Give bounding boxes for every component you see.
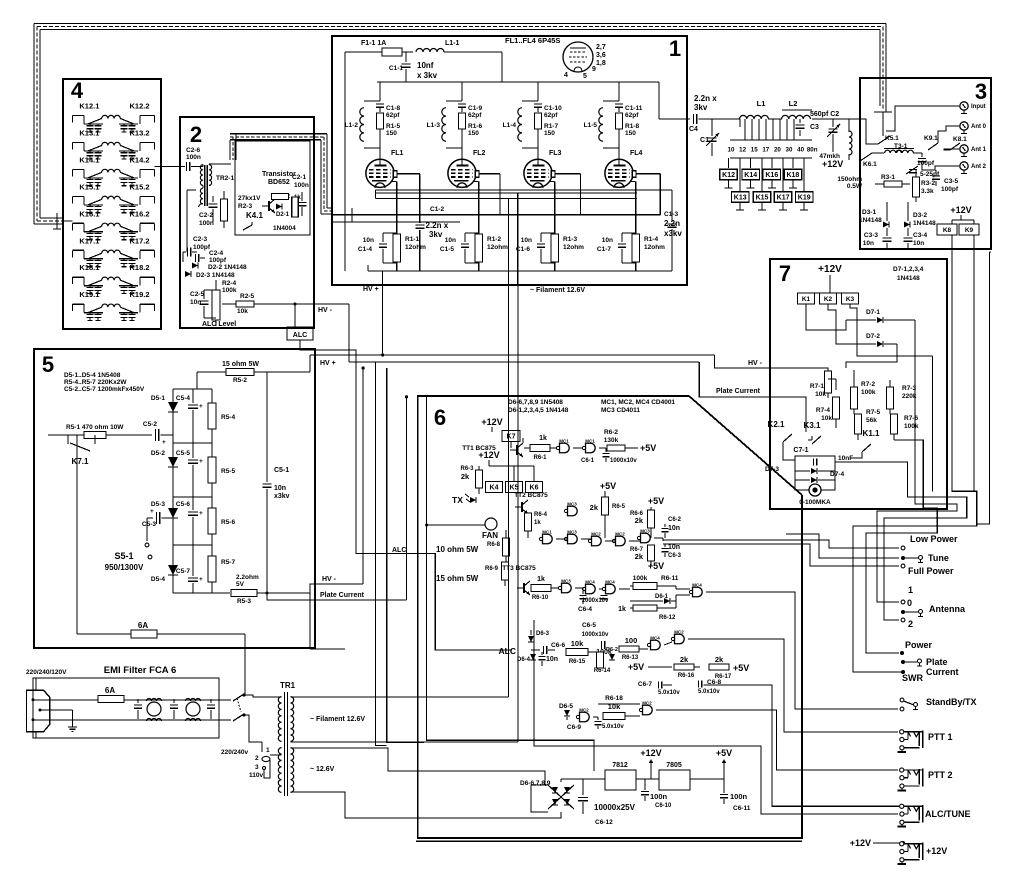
svg-text:TR2-1: TR2-1	[216, 175, 234, 182]
svg-text:130k: 130k	[604, 437, 619, 444]
resistor 1k	[292, 195, 302, 217]
svg-text:K14.2: K14.2	[129, 155, 149, 164]
svg-text:D3-2: D3-2	[913, 212, 927, 219]
capacitor C6-3 10n	[662, 544, 682, 559]
svg-text:62pf: 62pf	[625, 112, 639, 119]
wire K1-K3 tops	[806, 292, 850, 294]
cathode wire FL1	[391, 182, 397, 235]
jack ALC/TUNE	[898, 804, 971, 826]
resistor R6-3 2k	[460, 466, 482, 494]
svg-text:Ant 0: Ant 0	[971, 124, 987, 130]
svg-text:FL4: FL4	[630, 150, 643, 157]
wire long run to block7 plate current	[349, 361, 699, 363]
resistor R2-3 27kx1W	[221, 191, 262, 228]
svg-text:D7-1: D7-1	[866, 309, 880, 316]
cathode wire FL4	[630, 182, 636, 235]
svg-text:K16.1: K16.1	[79, 209, 99, 218]
svg-text:+5V: +5V	[733, 663, 749, 673]
capacitor C1-1 10nf x3kv	[389, 52, 438, 82]
svg-text:C5-4: C5-4	[176, 395, 190, 402]
svg-text:+: +	[199, 458, 203, 465]
svg-text:R6-2: R6-2	[604, 429, 618, 436]
svg-text:R7-5: R7-5	[866, 409, 880, 416]
svg-text:K15.2: K15.2	[129, 182, 149, 191]
svg-text:10000x25V: 10000x25V	[594, 803, 636, 812]
svg-text:15 ohm 5W: 15 ohm 5W	[222, 361, 259, 368]
svg-text:ALC: ALC	[293, 332, 307, 339]
capacitor C6-4	[578, 588, 609, 613]
svg-text:150: 150	[386, 130, 397, 137]
capacitor C2-2	[199, 196, 218, 227]
svg-text:MC2: MC2	[674, 630, 684, 635]
svg-text:Plate Current: Plate Current	[716, 388, 761, 395]
cathode network C1-6 R1-3	[516, 233, 584, 271]
svg-text:D6-6,7,8,9 1N5408: D6-6,7,8,9 1N5408	[508, 399, 563, 406]
svg-text:HV +: HV +	[363, 286, 379, 293]
svg-text:C5-1: C5-1	[274, 467, 289, 474]
gate MC4c	[602, 580, 630, 594]
diode D2-1	[276, 204, 290, 219]
svg-text:100pf: 100pf	[941, 186, 959, 193]
connector Input	[960, 102, 986, 114]
svg-text:R1-8: R1-8	[625, 123, 639, 130]
svg-text:FAN: FAN	[482, 531, 498, 540]
wire left rail block1	[344, 52, 346, 271]
svg-text:Low Power: Low Power	[910, 534, 958, 544]
connector Ant 0	[960, 122, 987, 134]
svg-text:x3kv: x3kv	[274, 493, 290, 500]
svg-text:10n: 10n	[190, 299, 201, 306]
wire plate current riser from block5	[406, 397, 408, 600]
svg-text:2.2ohm: 2.2ohm	[236, 574, 259, 581]
svg-text:3: 3	[975, 79, 987, 104]
svg-text:FL2: FL2	[473, 150, 486, 157]
module box 5 (HV power supply)	[34, 349, 315, 648]
svg-text:3kv: 3kv	[429, 230, 443, 239]
svg-text:R2-5: R2-5	[240, 293, 254, 300]
svg-text:R1-1: R1-1	[405, 236, 419, 243]
gate row MC3c	[637, 529, 650, 543]
svg-text:K9.1: K9.1	[924, 135, 938, 142]
svg-text:5.0x10v: 5.0x10v	[698, 689, 720, 695]
svg-text:K8: K8	[943, 227, 952, 234]
svg-text:D5-4: D5-4	[151, 576, 165, 583]
wire Plate Current entry	[770, 397, 806, 432]
svg-text:K6.1: K6.1	[863, 161, 877, 168]
svg-text:1: 1	[908, 585, 913, 595]
svg-text:R6-11: R6-11	[661, 575, 679, 582]
svg-text:D2-2 1N4148: D2-2 1N4148	[208, 264, 247, 271]
fan symbol	[482, 518, 498, 540]
svg-text:5V: 5V	[236, 581, 245, 588]
contact Ant2	[901, 618, 905, 622]
svg-text:C2-1: C2-1	[292, 174, 306, 181]
svg-text:K4: K4	[490, 485, 499, 492]
wire grid bus top	[377, 81, 659, 83]
PA stage FL4 anode network	[584, 82, 643, 160]
capacitor C6-12 10000x25V	[578, 779, 636, 826]
svg-text:D7-3: D7-3	[765, 466, 779, 473]
svg-text:5-25pf: 5-25pf	[920, 171, 940, 178]
svg-text:+5V: +5V	[716, 748, 732, 758]
relay coil K4	[486, 482, 503, 493]
svg-text:R5-2: R5-2	[233, 377, 247, 384]
svg-text:62pf: 62pf	[468, 112, 482, 119]
wire mains to TR1 primary	[244, 695, 282, 697]
svg-text:MC3: MC3	[567, 530, 577, 535]
svg-text:R1-7: R1-7	[544, 123, 558, 130]
svg-text:+12V: +12V	[478, 450, 499, 460]
svg-text:10k: 10k	[571, 639, 584, 648]
relay K15	[753, 192, 771, 203]
svg-text:R7-2: R7-2	[861, 381, 875, 388]
transformer TR1	[278, 681, 295, 796]
capacitor C6-7	[638, 681, 680, 696]
svg-text:560pf C2: 560pf C2	[810, 111, 839, 118]
capacitor C6-1	[581, 448, 637, 464]
diode D3-2 1N4148	[904, 202, 936, 228]
svg-text:150ohm: 150ohm	[837, 176, 862, 183]
EMI caps	[134, 699, 215, 719]
wire to Ant1	[944, 149, 959, 150]
svg-text:D6-4: D6-4	[517, 657, 531, 663]
svg-text:L1-5: L1-5	[584, 122, 598, 129]
svg-text:D7-2: D7-2	[866, 333, 880, 340]
svg-text:R6-15: R6-15	[569, 659, 586, 665]
svg-text:SWR: SWR	[902, 673, 923, 683]
svg-text:D5-1: D5-1	[151, 395, 165, 402]
svg-text:2.2n x: 2.2n x	[426, 221, 449, 230]
svg-text:100n: 100n	[294, 182, 309, 189]
wire K2 down	[828, 304, 846, 344]
capacitor C5-4	[176, 389, 203, 443]
gate MC1a	[556, 439, 583, 453]
transformer T3-1	[872, 143, 922, 153]
svg-text:9: 9	[592, 66, 596, 73]
wire grid bias bus	[332, 214, 660, 216]
svg-text:40: 40	[797, 147, 804, 154]
svg-text:R5-5: R5-5	[221, 468, 235, 475]
wire U-turn fourth	[866, 440, 937, 653]
svg-text:R1-2: R1-2	[487, 236, 501, 243]
tube FL4	[605, 159, 633, 187]
resistor R2-5 10k	[222, 293, 254, 315]
diode D6-1	[630, 594, 676, 604]
grid pin bracket FL3	[551, 171, 580, 215]
relay row stubs	[725, 158, 809, 210]
svg-text:1000x10v: 1000x10v	[582, 632, 609, 638]
diode D2-2	[192, 263, 247, 272]
wire HV- exit block5	[310, 584, 363, 593]
svg-text:5.0x10v: 5.0x10v	[602, 724, 624, 730]
svg-text:TT2 BC875: TT2 BC875	[514, 492, 548, 499]
capacitor C5-3	[142, 508, 173, 528]
svg-text:10nF: 10nF	[838, 455, 853, 462]
contact Full Power	[901, 564, 905, 568]
svg-text:100k: 100k	[904, 423, 919, 430]
wire K3 down	[850, 304, 933, 356]
svg-text:C7-1: C7-1	[793, 447, 808, 454]
capacitor C6-5	[582, 622, 609, 649]
diode D5-1	[151, 389, 178, 443]
svg-text:MC3: MC3	[640, 529, 650, 534]
svg-text:~ Filament 12.6V: ~ Filament 12.6V	[530, 287, 585, 294]
resistor R2-4 100k	[212, 280, 237, 326]
svg-text:3.3k: 3.3k	[921, 188, 934, 195]
diode D7-4	[795, 471, 844, 483]
svg-text:K17.1: K17.1	[79, 236, 99, 245]
svg-text:+12V: +12V	[850, 838, 871, 848]
svg-text:K18.2: K18.2	[129, 263, 149, 272]
resistor R5-2 15 ohm 5W	[197, 361, 310, 384]
svg-text:D6-1,2,3,4,5 1N4148: D6-1,2,3,4,5 1N4148	[508, 407, 569, 414]
svg-text:6A: 6A	[138, 621, 148, 630]
svg-text:K1.1: K1.1	[863, 429, 880, 438]
resistor R6-5 2k	[590, 481, 626, 538]
relay K18	[784, 169, 802, 180]
relay coil K9	[959, 224, 979, 235]
svg-text:MC4: MC4	[605, 580, 615, 585]
resistor R5-7	[208, 545, 235, 593]
svg-text:110v: 110v	[249, 772, 263, 779]
svg-text:MC1: MC1	[542, 530, 552, 535]
svg-text:+5V: +5V	[628, 662, 644, 672]
svg-text:62pf: 62pf	[386, 112, 400, 119]
wire fan feed column	[427, 396, 594, 771]
svg-text:K13.1: K13.1	[79, 128, 99, 137]
svg-text:10n: 10n	[913, 240, 924, 247]
svg-text:17: 17	[762, 147, 769, 154]
wire block4 K14 row to block2 C2-6	[155, 166, 181, 168]
svg-text:D5-3: D5-3	[151, 501, 165, 508]
resistor R7-3 220k	[887, 380, 917, 414]
trimmer 5-25pf	[906, 166, 940, 178]
resistor R7-5 56k	[854, 409, 880, 440]
svg-text:MC4: MC4	[692, 583, 702, 588]
relay K13	[731, 192, 749, 203]
resistor R5-3 2.2ohm 5W	[173, 574, 310, 605]
svg-text:PTT 1: PTT 1	[928, 732, 953, 742]
svg-text:TT3 BC875: TT3 BC875	[502, 565, 536, 572]
svg-text:BD652: BD652	[268, 179, 290, 186]
tube FL2	[448, 159, 476, 187]
svg-text:220/240/120V: 220/240/120V	[26, 669, 67, 676]
wire TR1 12.6V winding out	[291, 748, 549, 785]
svg-text:x 3kv: x 3kv	[417, 71, 438, 80]
diode D6-3	[528, 630, 550, 642]
svg-text:150: 150	[625, 130, 636, 137]
cathode wire FL2	[473, 182, 479, 235]
svg-text:R5-6: R5-6	[221, 519, 235, 526]
svg-text:+5V: +5V	[648, 496, 664, 506]
relay contact K1.1	[862, 429, 880, 452]
svg-text:K12.2: K12.2	[129, 102, 149, 111]
wire U-turn outer	[853, 235, 977, 672]
svg-text:6A: 6A	[105, 686, 115, 695]
svg-text:10k: 10k	[821, 415, 832, 422]
svg-text:100n: 100n	[650, 792, 668, 801]
svg-text:C2-4: C2-4	[209, 250, 223, 257]
svg-text:MC4: MC4	[585, 580, 595, 585]
svg-text:5.0x10v: 5.0x10v	[658, 690, 680, 696]
contact Ant1	[901, 600, 905, 604]
wire HV- riser from block5	[362, 368, 364, 584]
module box 3 (antenna relays)	[860, 78, 991, 249]
svg-text:10: 10	[728, 147, 735, 154]
svg-text:56k: 56k	[866, 417, 877, 424]
resistor R7-6 100k	[890, 414, 919, 440]
resistor R5-4	[208, 389, 235, 443]
wire trimmer to Ant2	[922, 166, 959, 170]
svg-text:C1-5: C1-5	[440, 246, 454, 253]
module box 2 (ALC detector)	[180, 117, 314, 328]
svg-text:100n: 100n	[199, 220, 214, 227]
svg-text:C5-2: C5-2	[143, 421, 157, 428]
transistor TT3 BC875	[502, 565, 536, 595]
svg-text:C1-10: C1-10	[544, 105, 562, 112]
svg-text:C5-2..C5-7 1200mkFx450V: C5-2..C5-7 1200mkFx450V	[64, 386, 145, 393]
diode D2-3	[185, 271, 235, 279]
svg-text:C5-3: C5-3	[142, 521, 156, 528]
svg-text:K19.2: K19.2	[129, 290, 149, 299]
svg-text:C6-10: C6-10	[655, 803, 672, 809]
resistor R6-16 2k	[628, 655, 700, 679]
wire alc-tune feed 2	[534, 620, 898, 814]
svg-text:10n: 10n	[602, 237, 613, 244]
capacitor C5-7	[176, 545, 203, 593]
svg-text:1N4004: 1N4004	[273, 225, 296, 232]
svg-text:C6-12: C6-12	[595, 819, 613, 826]
svg-text:C6-11: C6-11	[733, 805, 751, 812]
fuse 6A block5	[77, 621, 245, 638]
shield termination tick left	[56, 213, 58, 229]
contact Power	[900, 651, 904, 655]
svg-text:R1-5: R1-5	[386, 123, 400, 130]
svg-text:2k: 2k	[635, 552, 644, 561]
wire HV+ exit block5	[309, 355, 311, 372]
svg-text:100k: 100k	[861, 389, 876, 396]
svg-text:ALC: ALC	[392, 547, 406, 554]
svg-text:7: 7	[779, 261, 791, 286]
svg-text:D7-1,2,3,4: D7-1,2,3,4	[893, 266, 924, 273]
wire K3 drop to nest	[932, 356, 934, 491]
svg-text:10n: 10n	[445, 237, 456, 244]
resistor R6-8 10 ohm 5W	[436, 530, 510, 562]
module box 6 (control logic)	[418, 396, 802, 838]
svg-text:R6-9: R6-9	[485, 566, 499, 572]
resistor R6-1 1k	[524, 435, 557, 461]
svg-text:12ohm: 12ohm	[405, 244, 426, 251]
svg-text:D2-3 1N4148: D2-3 1N4148	[196, 272, 235, 279]
svg-text:K14: K14	[744, 172, 757, 179]
wire Plate Current exit block5	[266, 592, 269, 595]
svg-text:TR1: TR1	[280, 681, 296, 690]
relay contact K8.1	[950, 136, 967, 150]
wire filament drops	[508, 199, 510, 285]
inductor 47mkh	[819, 119, 852, 160]
svg-text:D6-3: D6-3	[536, 631, 550, 637]
svg-text:Plate: Plate	[926, 657, 948, 667]
relay coil K2	[820, 293, 837, 304]
relay coil K7	[492, 431, 520, 449]
svg-text:C2-3: C2-3	[193, 236, 207, 243]
EMI filter box	[33, 678, 219, 738]
svg-text:K4.1: K4.1	[246, 211, 263, 220]
capacitor C5-1 10n x3kv	[263, 372, 290, 593]
svg-text:Tune: Tune	[928, 553, 949, 563]
svg-text:HV -: HV -	[318, 307, 333, 314]
ground symbol EMI	[68, 710, 77, 731]
svg-text:K19: K19	[798, 195, 811, 202]
svg-text:2k: 2k	[590, 503, 599, 512]
gate MC4d	[647, 636, 672, 650]
svg-text:Input: Input	[971, 104, 986, 110]
svg-text:220/240v: 220/240v	[221, 749, 248, 756]
svg-text:0: 0	[907, 598, 912, 608]
filter row K15.1/K15.2	[73, 182, 155, 212]
diode D7-3	[765, 466, 835, 474]
svg-text:C6-6: C6-6	[551, 642, 565, 649]
wire L1-1 to grid bus	[501, 52, 503, 82]
svg-text:~ 12.6V: ~ 12.6V	[310, 766, 335, 773]
svg-text:2k: 2k	[715, 655, 724, 664]
svg-text:2,7: 2,7	[596, 44, 606, 51]
svg-text:10n: 10n	[521, 237, 532, 244]
wire input feed	[886, 106, 959, 131]
PA stage FL2 anode network	[427, 82, 486, 160]
svg-text:1000x10v: 1000x10v	[610, 458, 637, 464]
svg-text:2k: 2k	[635, 516, 644, 525]
svg-text:R6-1: R6-1	[533, 455, 547, 461]
svg-text:7805: 7805	[666, 762, 682, 769]
svg-text:C1-8: C1-8	[386, 105, 400, 112]
svg-text:Plate Current: Plate Current	[320, 592, 365, 599]
cathode network C1-4 R1-1	[358, 233, 426, 271]
svg-text:C3-3: C3-3	[864, 232, 878, 239]
wire HV+ corner to block7 HV-	[715, 355, 770, 368]
wire bundle into K5.1	[882, 112, 884, 136]
relay coil K8	[937, 224, 957, 235]
ladder rails	[173, 388, 212, 390]
svg-text:C3: C3	[810, 124, 819, 131]
svg-text:C6-5: C6-5	[582, 622, 596, 629]
svg-text:7812: 7812	[612, 762, 628, 769]
svg-text:0.5W: 0.5W	[847, 183, 863, 190]
relay K16	[763, 169, 781, 180]
capacitor C7-1 10nF	[793, 447, 853, 490]
resistor R3-1	[875, 174, 910, 187]
wire K8.1 to Ant0	[938, 126, 959, 143]
svg-text:5: 5	[42, 352, 54, 377]
svg-text:K13.2: K13.2	[129, 128, 149, 137]
svg-text:1: 1	[669, 36, 681, 61]
gate row MC2b	[612, 532, 625, 546]
wire ladder top feed	[196, 372, 198, 389]
svg-text:1k: 1k	[534, 520, 541, 526]
mains switch	[233, 693, 246, 721]
filter row K19.1/K19.2	[73, 290, 155, 320]
tube FL1	[366, 159, 394, 187]
relay coil K3	[842, 293, 859, 304]
svg-text:4: 4	[564, 72, 568, 79]
capacitor C2-1	[292, 174, 309, 216]
svg-text:950/1300V: 950/1300V	[105, 563, 144, 572]
svg-text:MC2: MC2	[579, 708, 589, 713]
gate MC3b	[564, 502, 577, 516]
svg-text:MC2: MC2	[642, 701, 652, 706]
transistor Q2 BD652 symbol	[268, 201, 270, 211]
svg-text:5: 5	[583, 73, 587, 80]
